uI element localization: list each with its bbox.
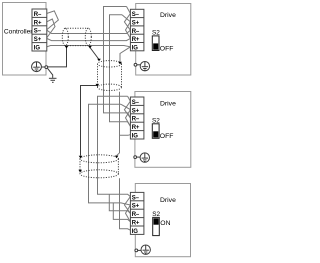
svg-text:OFF: OFF — [160, 45, 174, 52]
svg-text:S2: S2 — [152, 117, 160, 124]
svg-text:R–: R– — [132, 29, 140, 35]
svg-text:ON: ON — [160, 220, 170, 227]
svg-text:S+: S+ — [132, 108, 140, 114]
svg-text:R–: R– — [132, 117, 140, 123]
svg-text:R+: R+ — [34, 20, 42, 26]
svg-text:S–: S– — [132, 12, 140, 18]
svg-text:IG: IG — [132, 134, 139, 140]
svg-text:S+: S+ — [34, 37, 42, 43]
svg-text:S–: S– — [132, 195, 140, 201]
svg-text:IG: IG — [132, 229, 139, 235]
svg-text:R+: R+ — [132, 221, 140, 227]
svg-text:Drive: Drive — [160, 197, 176, 204]
svg-text:Controller: Controller — [4, 29, 33, 36]
svg-text:IG: IG — [34, 46, 41, 52]
svg-text:R–: R– — [132, 212, 140, 218]
svg-text:R+: R+ — [132, 37, 140, 43]
svg-text:S+: S+ — [132, 204, 140, 210]
svg-text:R+: R+ — [132, 125, 140, 131]
svg-text:OFF: OFF — [160, 133, 174, 140]
svg-text:Drive: Drive — [160, 12, 176, 19]
svg-text:S–: S– — [132, 100, 140, 106]
svg-text:Drive: Drive — [160, 101, 176, 108]
svg-text:IG: IG — [132, 45, 139, 51]
svg-text:R–: R– — [34, 12, 42, 18]
svg-text:S–: S– — [34, 29, 42, 35]
svg-text:S+: S+ — [132, 21, 140, 27]
